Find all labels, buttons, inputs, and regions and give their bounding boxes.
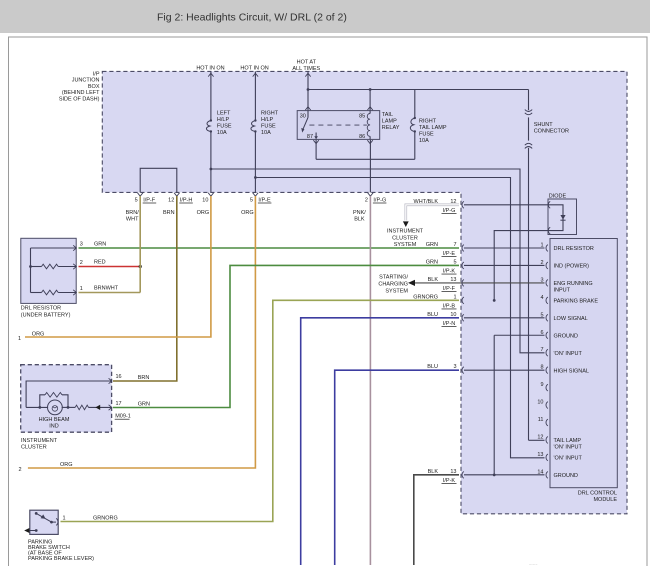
- svg-text:9: 9: [540, 382, 543, 388]
- svg-text:'ON' INPUT: 'ON' INPUT: [554, 445, 583, 451]
- svg-text:CLUSTER: CLUSTER: [392, 235, 418, 241]
- svg-text:I/P-F: I/P-F: [443, 286, 456, 292]
- svg-text:LOW SIGNAL: LOW SIGNAL: [554, 316, 588, 322]
- svg-text:1: 1: [63, 515, 66, 521]
- svg-text:JUNCTION: JUNCTION: [72, 78, 100, 84]
- svg-text:86: 86: [359, 134, 365, 140]
- svg-text:GROUND: GROUND: [554, 473, 578, 479]
- svg-text:TAIL: TAIL: [382, 112, 393, 118]
- svg-text:13: 13: [450, 469, 456, 475]
- svg-text:HIGH SIGNAL: HIGH SIGNAL: [554, 368, 589, 374]
- svg-text:(UNDER BATTERY): (UNDER BATTERY): [21, 313, 71, 319]
- svg-text:'ON' INPUT: 'ON' INPUT: [554, 351, 583, 357]
- svg-text:17: 17: [116, 401, 122, 407]
- svg-text:12: 12: [168, 197, 174, 203]
- svg-text:16: 16: [116, 374, 122, 380]
- svg-text:HIGH BEAM: HIGH BEAM: [39, 417, 70, 423]
- svg-text:ORG: ORG: [60, 462, 73, 468]
- svg-text:I/P-H: I/P-H: [180, 197, 193, 203]
- svg-text:12: 12: [537, 434, 543, 440]
- svg-text:CHARGING: CHARGING: [378, 281, 408, 287]
- svg-text:BOX: BOX: [88, 84, 100, 90]
- svg-text:BLU: BLU: [427, 364, 438, 370]
- svg-text:7: 7: [540, 347, 543, 353]
- svg-text:2: 2: [80, 260, 83, 266]
- svg-text:TAIL LAMP: TAIL LAMP: [554, 438, 582, 444]
- svg-text:HOT AT: HOT AT: [297, 59, 317, 65]
- svg-text:2: 2: [18, 467, 21, 473]
- svg-text:BLK: BLK: [428, 469, 439, 475]
- svg-text:SYSTEM: SYSTEM: [385, 288, 408, 294]
- svg-text:3: 3: [80, 242, 83, 248]
- svg-text:I/P-G: I/P-G: [443, 208, 456, 214]
- svg-text:WHT: WHT: [126, 217, 139, 223]
- svg-text:13: 13: [537, 452, 543, 458]
- svg-text:CLUSTER: CLUSTER: [21, 444, 47, 450]
- svg-text:GRN: GRN: [426, 242, 438, 248]
- svg-text:5: 5: [453, 259, 456, 265]
- svg-text:Fig 2: Headlights Circuit, W/: Fig 2: Headlights Circuit, W/ DRL (2 of …: [157, 11, 347, 23]
- svg-text:PARKING BRAKE LEVER): PARKING BRAKE LEVER): [28, 556, 94, 562]
- svg-text:LAMP: LAMP: [382, 119, 397, 125]
- svg-text:MODULE: MODULE: [593, 497, 617, 503]
- svg-text:DIODE: DIODE: [549, 193, 567, 199]
- svg-text:10: 10: [202, 197, 208, 203]
- svg-text:STARTING/: STARTING/: [379, 274, 408, 280]
- svg-text:GROUND: GROUND: [554, 333, 578, 339]
- svg-text:SHUNT: SHUNT: [534, 122, 554, 128]
- svg-text:HOT IN ON: HOT IN ON: [240, 66, 268, 72]
- svg-text:10: 10: [450, 312, 456, 318]
- svg-text:ALL TIMES: ALL TIMES: [292, 66, 320, 72]
- svg-text:H/LP: H/LP: [217, 117, 230, 123]
- svg-text:BRN: BRN: [163, 210, 175, 216]
- svg-text:INPUT: INPUT: [554, 288, 571, 294]
- svg-text:RIGHT: RIGHT: [261, 111, 279, 117]
- svg-text:RED: RED: [94, 259, 106, 265]
- svg-text:I/P-E: I/P-E: [258, 197, 271, 203]
- svg-text:BLU: BLU: [427, 312, 438, 318]
- svg-text:30: 30: [300, 113, 306, 119]
- svg-text:IND (POWER): IND (POWER): [554, 264, 590, 270]
- svg-text:I/P-N: I/P-N: [443, 321, 456, 327]
- svg-text:5: 5: [135, 197, 138, 203]
- svg-text:FUSE: FUSE: [217, 124, 232, 130]
- svg-text:4: 4: [540, 295, 543, 301]
- svg-text:ENG RUNNING: ENG RUNNING: [554, 281, 593, 287]
- svg-text:HOT IN ON: HOT IN ON: [196, 66, 224, 72]
- svg-text:3: 3: [453, 364, 456, 370]
- svg-text:PARKING BRAKE: PARKING BRAKE: [554, 299, 599, 305]
- svg-text:87: 87: [307, 134, 313, 140]
- svg-text:(BEHIND LEFT: (BEHIND LEFT: [62, 90, 100, 96]
- svg-text:BRN/: BRN/: [126, 210, 140, 216]
- svg-text:5: 5: [250, 197, 253, 203]
- svg-text:M09-1: M09-1: [115, 414, 131, 420]
- svg-text:10A: 10A: [419, 138, 429, 144]
- svg-text:1: 1: [453, 294, 456, 300]
- svg-text:DRL RESISTOR: DRL RESISTOR: [21, 306, 61, 312]
- svg-text:10A: 10A: [261, 130, 271, 136]
- svg-text:I/P-G: I/P-G: [373, 197, 386, 203]
- svg-text:CONNECTOR: CONNECTOR: [534, 128, 569, 134]
- svg-text:10: 10: [537, 400, 543, 406]
- svg-text:GRN: GRN: [138, 401, 150, 407]
- svg-text:~·~·~: ~·~·~: [529, 563, 537, 567]
- svg-text:SIDE OF DASH): SIDE OF DASH): [59, 96, 100, 102]
- svg-text:I/P-K: I/P-K: [443, 478, 456, 484]
- svg-text:FUSE: FUSE: [261, 124, 276, 130]
- svg-text:GRNORG: GRNORG: [93, 516, 118, 522]
- svg-text:85: 85: [359, 113, 365, 119]
- svg-text:PNK/: PNK/: [353, 210, 366, 216]
- svg-text:7: 7: [453, 242, 456, 248]
- svg-text:BLK: BLK: [428, 277, 439, 283]
- svg-text:BRNWHT: BRNWHT: [94, 285, 119, 291]
- svg-text:I/P-F: I/P-F: [143, 197, 156, 203]
- svg-text:RELAY: RELAY: [382, 125, 400, 131]
- svg-text:ORG: ORG: [32, 331, 45, 337]
- svg-text:LEFT: LEFT: [217, 111, 231, 117]
- svg-text:DRL RESISTOR: DRL RESISTOR: [554, 246, 594, 252]
- svg-text:INSTRUMENT: INSTRUMENT: [21, 438, 58, 444]
- svg-text:BLK: BLK: [354, 217, 365, 223]
- svg-text:GRN: GRN: [426, 259, 438, 265]
- svg-text:I/P-E: I/P-E: [443, 251, 456, 257]
- svg-text:13: 13: [450, 277, 456, 283]
- svg-text:BRN: BRN: [138, 375, 150, 381]
- svg-text:IND: IND: [49, 424, 59, 430]
- svg-text:DRL CONTROL: DRL CONTROL: [578, 491, 617, 497]
- svg-text:TAIL LAMP: TAIL LAMP: [419, 125, 447, 131]
- svg-text:GRN: GRN: [94, 242, 106, 248]
- svg-text:RIGHT: RIGHT: [419, 119, 437, 125]
- svg-text:10A: 10A: [217, 130, 227, 136]
- svg-text:I/P-B: I/P-B: [443, 303, 456, 309]
- svg-text:ORG: ORG: [197, 210, 210, 216]
- svg-text:11: 11: [538, 417, 544, 423]
- svg-text:FUSE: FUSE: [419, 132, 434, 138]
- svg-text:GRNORG: GRNORG: [413, 294, 438, 300]
- svg-text:I/P-K: I/P-K: [443, 268, 456, 274]
- svg-text:1: 1: [80, 286, 83, 292]
- svg-text:ORG: ORG: [241, 210, 254, 216]
- svg-text:H/LP: H/LP: [261, 117, 274, 123]
- svg-text:I/P: I/P: [93, 72, 100, 78]
- svg-text:'ON' INPUT: 'ON' INPUT: [554, 456, 583, 462]
- svg-text:1: 1: [18, 336, 21, 342]
- svg-text:2: 2: [365, 197, 368, 203]
- svg-text:INSTRUMENT: INSTRUMENT: [387, 229, 424, 235]
